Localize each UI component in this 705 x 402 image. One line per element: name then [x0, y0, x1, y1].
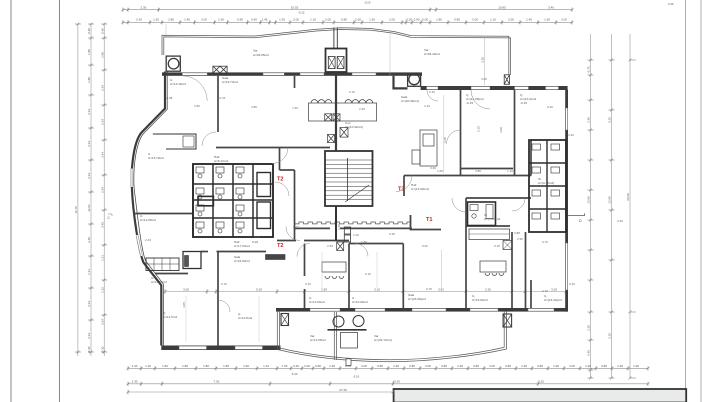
svg-text:T3: T3 [398, 187, 405, 193]
svg-text:3.90: 3.90 [194, 104, 200, 108]
svg-text:5.10: 5.10 [477, 126, 481, 132]
dim labels bottom [132, 364, 640, 368]
svg-text:1.22: 1.22 [100, 287, 104, 293]
svg-text:0.40: 0.40 [87, 28, 91, 34]
svg-text:-5.19: -5.19 [353, 375, 360, 379]
svg-text:1.60: 1.60 [162, 364, 168, 368]
svg-text:0.15: 0.15 [221, 282, 227, 286]
interior bottom dim labels [183, 287, 557, 291]
svg-text:1.40: 1.40 [617, 364, 623, 368]
svg-text:3.20: 3.20 [551, 287, 557, 291]
svg-text:0.25: 0.25 [389, 232, 395, 236]
stairwell [325, 151, 373, 241]
svg-text:2.34: 2.34 [87, 141, 91, 147]
svg-text:1.80: 1.80 [436, 18, 442, 22]
svg-text:2.00: 2.00 [561, 18, 567, 22]
top wall B [421, 86, 568, 90]
svg-text:1.45: 1.45 [184, 18, 190, 22]
svg-text:1.30: 1.30 [218, 18, 224, 22]
svg-text:10.55: 10.55 [291, 5, 299, 9]
svg-text:6.03: 6.03 [252, 240, 258, 244]
dimension chain lines [78, 10, 648, 392]
svg-text:2.00: 2.00 [361, 364, 367, 368]
svg-text:3.34: 3.34 [87, 301, 91, 307]
terrace hatched column right [503, 314, 512, 327]
svg-text:0.40: 0.40 [293, 364, 299, 368]
svg-text:2.30: 2.30 [132, 380, 138, 384]
svg-text:-0.15: -0.15 [520, 101, 527, 105]
svg-text:0.20: 0.20 [569, 282, 575, 286]
svg-text:0.90: 0.90 [414, 18, 420, 22]
svg-text:2.43: 2.43 [145, 238, 151, 242]
svg-text:7.20: 7.20 [292, 106, 298, 110]
sheet frame right inner line [685, 0, 687, 402]
svg-text:1.10: 1.10 [145, 364, 151, 368]
svg-text:1.80: 1.80 [361, 240, 367, 244]
svg-text:0.15: 0.15 [305, 282, 311, 286]
svg-text:7.30: 7.30 [213, 380, 219, 384]
terrace divider wall [334, 312, 336, 360]
svg-text:0.80: 0.80 [454, 18, 460, 22]
step wall x=393 [394, 76, 408, 89]
kitchen island mid (T2) [322, 242, 346, 278]
top-left corner planter box with circle [166, 56, 180, 71]
svg-text:1.40: 1.40 [329, 364, 335, 368]
svg-text:2.00: 2.00 [325, 18, 331, 22]
svg-text:3.00: 3.00 [183, 287, 189, 291]
lobby appliance boxes [344, 227, 350, 242]
svg-text:0.15: 0.15 [349, 90, 355, 94]
svg-text:C: C [108, 216, 111, 220]
svg-text:A=(10.92m2): A=(10.92m2) [345, 125, 363, 129]
svg-text:2.34: 2.34 [87, 333, 91, 339]
svg-text:3.10: 3.10 [608, 333, 612, 339]
svg-text:4.05: 4.05 [182, 302, 186, 308]
svg-text:5.25: 5.25 [608, 117, 612, 123]
svg-text:2.40: 2.40 [587, 117, 591, 123]
svg-text:2.00: 2.00 [425, 364, 431, 368]
svg-text:0.40: 0.40 [429, 90, 435, 94]
svg-text:0.80: 0.80 [537, 364, 543, 368]
svg-text:A=12.05m2: A=12.05m2 [310, 338, 326, 342]
svg-text:A=15.79m2: A=15.79m2 [151, 280, 167, 284]
svg-text:1.10: 1.10 [263, 364, 269, 368]
svg-text:0.80: 0.80 [341, 18, 347, 22]
left curved outer wall [132, 72, 165, 346]
svg-text:0.60: 0.60 [251, 18, 257, 22]
right chain labels [587, 66, 591, 356]
svg-text:0.80: 0.80 [441, 364, 447, 368]
bottom wall [276, 308, 568, 312]
svg-text:A=(39.72m2): A=(39.72m2) [374, 338, 392, 342]
svg-text:4.80: 4.80 [251, 105, 257, 109]
svg-text:0.80: 0.80 [377, 364, 383, 368]
terrace left edge [277, 312, 279, 350]
svg-text:2.00: 2.00 [389, 18, 395, 22]
svg-text:A=12.8m2: A=12.8m2 [238, 316, 252, 320]
svg-text:A=12.95m2: A=12.95m2 [140, 218, 156, 222]
svg-text:2.30: 2.30 [485, 287, 491, 291]
balcony parapet top terrace (double line) [162, 28, 511, 75]
terrace drain tab [346, 359, 351, 366]
svg-text:3.40: 3.40 [100, 222, 104, 228]
svg-text:20.20: 20.20 [626, 193, 630, 201]
svg-text:A=17.93m2: A=17.93m2 [234, 244, 250, 248]
svg-text:0.45: 0.45 [668, 2, 674, 6]
svg-text:27.35: 27.35 [339, 388, 347, 392]
furniture: sofa T3 living [412, 130, 437, 166]
svg-text:3.40: 3.40 [548, 5, 554, 9]
svg-text:A=(4.40m2): A=(4.40m2) [538, 181, 554, 185]
svg-text:1.20: 1.20 [153, 18, 159, 22]
lobby walls [295, 227, 413, 229]
svg-text:2.34: 2.34 [100, 119, 104, 125]
svg-text:2.00: 2.00 [569, 364, 575, 368]
svg-text:1.80: 1.80 [168, 18, 174, 22]
svg-text:13.90: 13.90 [587, 196, 591, 204]
top wall A [162, 66, 422, 76]
svg-text:0.90: 0.90 [237, 18, 243, 22]
svg-text:0.00: 0.00 [422, 18, 428, 22]
svg-text:1.80: 1.80 [182, 364, 188, 368]
left wing bottom wall [161, 346, 280, 351]
svg-text:1.05: 1.05 [437, 169, 443, 173]
svg-text:2.64: 2.64 [100, 187, 104, 193]
tiny room labels [140, 48, 562, 342]
svg-text:3.25: 3.25 [480, 57, 484, 63]
svg-text:1.10: 1.10 [310, 18, 316, 22]
svg-text:5.20: 5.20 [256, 287, 262, 291]
svg-text:2.00: 2.00 [304, 364, 310, 368]
T1 kitchen counter [469, 229, 510, 240]
top-right corner planter box with circle [408, 74, 421, 87]
svg-text:A=(12.60m2): A=(12.60m2) [411, 187, 429, 191]
svg-text:T2: T2 [277, 177, 284, 183]
svg-text:-7.05: -7.05 [281, 364, 288, 368]
svg-text:1.60: 1.60 [553, 364, 559, 368]
svg-text:2.00: 2.00 [472, 18, 478, 22]
svg-text:6.40: 6.40 [254, 235, 260, 239]
lobby crenellated joint line [295, 222, 412, 224]
svg-text:Var: Var [253, 49, 258, 53]
svg-text:3.44: 3.44 [100, 152, 104, 158]
svg-text:14.75: 14.75 [74, 206, 78, 214]
svg-text:1.80: 1.80 [87, 49, 91, 55]
tiny interior dims [145, 77, 623, 293]
svg-text:-0.30: -0.30 [100, 346, 104, 353]
svg-text:1.21: 1.21 [87, 269, 91, 275]
title block band bottom right [394, 389, 687, 402]
svg-text:1.40: 1.40 [457, 364, 463, 368]
svg-text:2.34: 2.34 [100, 85, 104, 91]
svg-text:1.80: 1.80 [203, 364, 209, 368]
svg-text:2.00: 2.00 [489, 364, 495, 368]
svg-text:-6.75: -6.75 [587, 66, 591, 73]
svg-text:0.80: 0.80 [409, 364, 415, 368]
svg-text:2.30: 2.30 [136, 18, 142, 22]
elevator shaft [326, 28, 347, 73]
svg-text:0.80: 0.80 [473, 364, 479, 368]
svg-text:2.20: 2.20 [359, 107, 365, 111]
svg-text:0.40: 0.40 [100, 28, 104, 34]
sheet frame left line 2 [59, 0, 61, 402]
svg-text:2.00: 2.00 [293, 18, 299, 22]
bathroom core cluster [193, 164, 273, 237]
svg-text:13.90: 13.90 [608, 196, 612, 204]
svg-text:A=12.60m2: A=12.60m2 [309, 300, 325, 304]
svg-text:0.80: 0.80 [505, 364, 511, 368]
svg-text:A=15.60m2: A=15.60m2 [472, 298, 488, 302]
svg-text:4.80: 4.80 [475, 169, 481, 173]
svg-text:2.00: 2.00 [355, 18, 361, 22]
closet top-left room [153, 134, 196, 149]
wing closet row [146, 258, 179, 271]
svg-text:1.40: 1.40 [521, 364, 527, 368]
svg-text:0.88: 0.88 [514, 231, 520, 235]
T1 inner bathroom [468, 202, 496, 226]
svg-text:3.81: 3.81 [438, 287, 444, 291]
svg-text:T1: T1 [426, 217, 433, 223]
svg-text:14.20: 14.20 [392, 380, 400, 384]
svg-text:2.30: 2.30 [140, 5, 146, 9]
svg-text:1.45: 1.45 [262, 18, 268, 22]
svg-text:A=(23.60)m2: A=(23.60)m2 [408, 297, 426, 301]
left chain labels [87, 28, 91, 354]
svg-text:1.30: 1.30 [369, 18, 375, 22]
svg-text:6.40: 6.40 [587, 350, 591, 356]
svg-text:1.30: 1.30 [279, 18, 285, 22]
svg-text:1.80: 1.80 [87, 77, 91, 83]
svg-text:1.60: 1.60 [633, 364, 639, 368]
svg-text:A=94.49m2: A=94.49m2 [424, 52, 440, 56]
curved wall window bands [131, 169, 142, 257]
svg-text:A=24.00m2: A=24.00m2 [234, 259, 250, 263]
svg-text:A=13.49m2: A=13.49m2 [170, 82, 186, 86]
dim labels top [140, 5, 554, 9]
svg-text:1.10: 1.10 [490, 18, 496, 22]
svg-text:1.10: 1.10 [507, 169, 513, 173]
svg-text:0.20: 0.20 [617, 219, 623, 223]
svg-text:2.30: 2.30 [132, 364, 138, 368]
double X vent box on wall A [213, 66, 227, 73]
svg-text:1.80: 1.80 [223, 364, 229, 368]
svg-text:1.60: 1.60 [243, 364, 249, 368]
svg-text:0.20: 0.20 [406, 18, 412, 22]
terrace interior dim ext line [483, 37, 485, 85]
svg-text:D: D [579, 219, 582, 223]
red unit labels [277, 177, 433, 250]
notch D [568, 213, 585, 215]
svg-text:A=8.12m2: A=8.12m2 [214, 159, 228, 163]
svg-text:2.00: 2.00 [201, 18, 207, 22]
kitchen island T1 [480, 241, 512, 276]
svg-text:1.40: 1.40 [585, 364, 591, 368]
svg-text:A=10.99m2: A=10.99m2 [352, 300, 368, 304]
sheet frame left line 1 [10, 0, 12, 402]
svg-text:3.30: 3.30 [430, 166, 436, 170]
svg-text:2.34: 2.34 [87, 173, 91, 179]
svg-text:0.15: 0.15 [293, 225, 299, 229]
svg-text:A=12.5m2: A=12.5m2 [163, 315, 177, 319]
terrace hatched column left [281, 314, 289, 326]
svg-text:3.20: 3.20 [538, 380, 544, 384]
svg-text:4.10: 4.10 [424, 104, 430, 108]
svg-text:3.70: 3.70 [542, 240, 548, 244]
svg-text:-0.15: -0.15 [219, 96, 226, 100]
dim ticks [127, 20, 574, 24]
svg-text:0.15: 0.15 [365, 272, 371, 276]
svg-text:2.34: 2.34 [87, 109, 91, 115]
core spine wall [335, 72, 337, 151]
svg-text:-6.40: -6.40 [291, 372, 298, 376]
svg-text:-0.30: -0.30 [87, 346, 91, 353]
svg-text:3.00: 3.00 [481, 77, 487, 81]
svg-text:1.45: 1.45 [526, 18, 532, 22]
svg-text:T2: T2 [277, 243, 284, 249]
svg-text:0.15: 0.15 [426, 287, 432, 291]
svg-text:A=(5.56)m2: A=(5.56)m2 [484, 217, 501, 221]
svg-text:-0.08: -0.08 [166, 96, 173, 100]
svg-text:3.40: 3.40 [87, 237, 91, 243]
svg-text:10.85: 10.85 [498, 5, 506, 9]
svg-text:1.40: 1.40 [393, 364, 399, 368]
svg-text:-0.15: -0.15 [466, 101, 473, 105]
svg-text:3.00: 3.00 [499, 127, 503, 133]
svg-text:A=13.79m2: A=13.79m2 [148, 156, 164, 160]
svg-text:1.21: 1.21 [100, 255, 104, 261]
terrace bottom curved parapet [277, 312, 506, 362]
svg-text:0.20: 0.20 [547, 105, 553, 109]
svg-text:2.70: 2.70 [542, 289, 548, 293]
kitchen counters (T2 top apt) [309, 100, 377, 143]
svg-text:-0.20: -0.20 [364, 1, 371, 5]
right bathroom cluster [529, 140, 566, 232]
svg-text:A=93.95m2: A=93.95m2 [253, 53, 269, 57]
svg-text:A=19.73m2: A=19.73m2 [222, 80, 238, 84]
svg-text:1.20: 1.20 [353, 233, 359, 237]
svg-text:1.80: 1.80 [100, 52, 104, 58]
wing chimney block [183, 252, 201, 269]
svg-text:-0.15: -0.15 [298, 11, 305, 15]
svg-text:2.50: 2.50 [327, 244, 333, 248]
X vent box at parapet base [504, 75, 509, 85]
svg-text:12.01: 12.01 [87, 204, 91, 212]
svg-text:A=(20.99m2): A=(20.99m2) [401, 99, 419, 103]
svg-text:5.02: 5.02 [422, 244, 428, 248]
interior partitions [133, 76, 531, 346]
door swing arcs [166, 24, 525, 342]
right wall [565, 90, 584, 312]
svg-text:0.80: 0.80 [601, 364, 607, 368]
svg-text:1.30: 1.30 [544, 18, 550, 22]
svg-text:0.20: 0.20 [568, 133, 574, 137]
sheet frame right outer line [700, 0, 702, 402]
svg-text:3.34: 3.34 [100, 319, 104, 325]
svg-text:0.80: 0.80 [315, 364, 321, 368]
svg-text:0.15: 0.15 [494, 244, 500, 248]
svg-text:2.30: 2.30 [587, 325, 591, 331]
terrace trees and table [328, 316, 367, 349]
svg-text:2.50: 2.50 [517, 237, 523, 241]
svg-text:2.00: 2.00 [508, 18, 514, 22]
svg-text:A=(16.40)m2: A=(16.40)m2 [544, 298, 562, 302]
